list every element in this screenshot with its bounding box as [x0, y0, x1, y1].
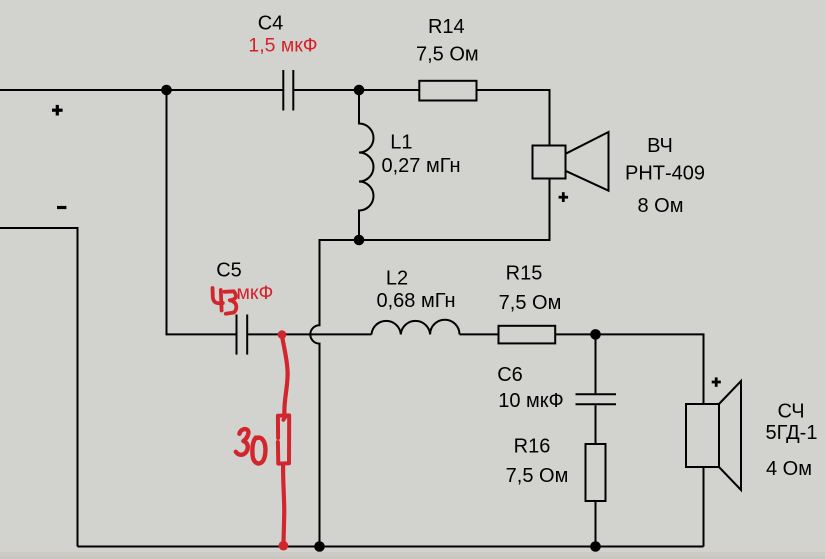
svg-text:C5: C5 — [216, 260, 242, 282]
speaker U1 BЧ horn — [566, 132, 609, 191]
svg-text:7,5 Ом: 7,5 Ом — [499, 292, 562, 314]
red junction dot at bottom rail — [279, 541, 289, 551]
wire node B to left drop x=319.5 with hop over middle rail — [310, 240, 359, 547]
wire left vertical from node A to C5 rail — [167, 90, 237, 334]
resistor R16 — [586, 444, 606, 501]
svg-text:7,5 Ом: 7,5 Ом — [506, 465, 569, 487]
svg-text:R15: R15 — [506, 263, 543, 285]
wire minus terminal — [0, 228, 78, 547]
capacitor C5 — [237, 315, 248, 355]
svg-text:0,27 мГн: 0,27 мГн — [382, 155, 461, 177]
svg-text:4 Ом: 4 Ом — [766, 458, 812, 480]
svg-text:РНТ-409: РНТ-409 — [625, 163, 705, 185]
handwritten 30 (red) — [236, 429, 266, 463]
svg-text:ВЧ: ВЧ — [647, 135, 673, 157]
handwritten 43 (red) — [213, 288, 237, 314]
svg-text:C6: C6 — [497, 364, 523, 386]
svg-text:СЧ: СЧ — [777, 401, 804, 423]
minus terminal mark — [57, 206, 66, 209]
inductor L2 — [372, 320, 460, 335]
resistor R14 — [419, 81, 476, 101]
svg-text:8 Ом: 8 Ом — [638, 195, 684, 217]
wire R16 to bottom rail — [595, 501, 597, 547]
node top-of-L1 junction dot — [354, 85, 365, 96]
svg-text:L1: L1 — [390, 132, 412, 154]
speaker U2 CЧ horn — [719, 381, 741, 490]
wire speaker CЧ return — [703, 467, 705, 547]
svg-text:C4: C4 — [258, 13, 284, 35]
plus terminal mark — [52, 105, 63, 116]
svg-text:0,68 мГн: 0,68 мГн — [377, 290, 456, 312]
svg-text:5ГД-1: 5ГД-1 — [766, 422, 818, 444]
svg-text:L2: L2 — [386, 268, 408, 290]
capacitor C4 — [283, 70, 293, 111]
svg-text:R16: R16 — [514, 436, 551, 458]
svg-text:7,5 Ом: 7,5 Ом — [416, 44, 479, 66]
node C junction dot — [590, 329, 601, 340]
red junction dot at C5 output — [278, 330, 287, 339]
wire L2 to R15 — [460, 333, 499, 335]
resistor R15 — [499, 326, 556, 344]
wire top rail from left edge to C4 — [0, 89, 283, 91]
handwritten red resistor box — [278, 413, 289, 464]
svg-text:10 мкФ: 10 мкФ — [498, 390, 564, 412]
wire speaker BЧ return to node B — [359, 179, 550, 241]
speaker U2 CЧ box — [686, 404, 719, 467]
bottom rail junction dot right — [590, 541, 601, 552]
wire R14 to speaker BA1 drop — [477, 90, 550, 146]
svg-text:R14: R14 — [428, 16, 465, 38]
handwritten red wire from C5 node down to resistor — [282, 335, 288, 413]
bottom rail junction dot left — [314, 541, 325, 552]
inductor L1 — [359, 90, 374, 240]
bottom photo edge band — [0, 552, 825, 559]
handwritten red wire from resistor to bottom rail — [283, 464, 284, 545]
wire R15 to right drop — [555, 334, 703, 404]
capacitor C6 — [576, 334, 617, 444]
plus mark at speaker CЧ — [712, 377, 721, 386]
plus mark at speaker BЧ — [559, 192, 569, 202]
wire C4 to R14 — [293, 89, 419, 91]
svg-text:мкФ: мкФ — [237, 282, 274, 304]
wire bottom rail — [78, 546, 704, 548]
speaker U1 BЧ box — [533, 146, 566, 179]
node B junction dot — [354, 235, 365, 246]
svg-text:1,5 мкФ: 1,5 мкФ — [248, 34, 317, 56]
wire C5 to L2 — [247, 333, 371, 335]
node A junction dot — [161, 85, 172, 96]
